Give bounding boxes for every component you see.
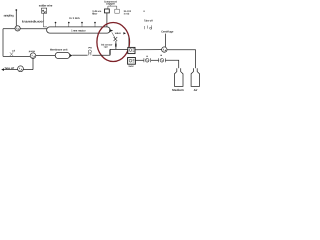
filter box 2: [115, 9, 120, 13]
signal generator box: [42, 8, 47, 13]
dip tube: [109, 49, 111, 55]
take off pump: [18, 66, 24, 72]
svg-text:1 mm reactor: 1 mm reactor: [71, 30, 85, 33]
reactor outlet arrow: [109, 29, 113, 32]
membrane outlet arrow: [70, 54, 73, 57]
svg-text:solder wire: solder wire: [39, 3, 53, 7]
injection port 1: [55, 22, 57, 27]
pump box B: [128, 58, 136, 65]
svg-text:Take off: Take off: [4, 67, 14, 70]
label leader line: [164, 34, 166, 47]
loop line into circle: [92, 54, 110, 56]
svg-text:NaOH: NaOH: [129, 65, 134, 68]
wire left vertical: [2, 29, 4, 57]
filter box 1: [105, 9, 110, 13]
transducer circle: [15, 26, 20, 31]
gas T split: [109, 4, 111, 7]
feed pump: [30, 53, 36, 59]
take off arrow: [1, 68, 4, 71]
bottom loop line: [3, 55, 30, 57]
bottle 2: [191, 68, 199, 86]
svg-text:filter: filter: [92, 13, 97, 16]
line box A to centrifugal pump: [135, 49, 162, 51]
tubular reactor capsule: [47, 27, 111, 33]
sampling port line: [15, 10, 17, 26]
svg-text:valve: valve: [115, 32, 122, 35]
membrane capsule: [55, 52, 70, 58]
svg-text:Membrane unit: Membrane unit: [50, 48, 68, 51]
inline valve PK: [88, 46, 92, 55]
inline clamp: [10, 49, 16, 56]
injection port 2: [68, 22, 70, 27]
svg-text:transducer: transducer: [22, 20, 45, 24]
wire from box to reactor: [43, 13, 47, 27]
probe stem: [115, 41, 117, 49]
probe collar: [115, 44, 117, 47]
svg-text:Take-off: Take-off: [144, 20, 153, 23]
line feed pump to membrane: [36, 55, 56, 57]
supply line down to reactor: [106, 13, 108, 27]
sampling port dot: [15, 9, 17, 11]
red highlight ellipse: [97, 23, 130, 62]
wire transducer to reactor: [20, 28, 47, 30]
centrifugal pump: [162, 47, 167, 52]
valve X: [114, 37, 118, 41]
line sensor to pump 2: [151, 59, 159, 61]
small clamp marks: [144, 25, 151, 29]
injection port 4: [94, 22, 96, 27]
pump box A: [128, 47, 135, 53]
wire left of transducer: [3, 28, 15, 30]
injection port 3: [81, 22, 83, 27]
svg-text:PK: PK: [88, 46, 92, 49]
feed pump down line: [32, 59, 34, 70]
svg-text:in 1 mm: in 1 mm: [69, 17, 80, 20]
svg-text:Medium: Medium: [172, 88, 184, 92]
pH sensor: [144, 56, 151, 63]
svg-text:spot: spot: [104, 46, 108, 49]
svg-text:Centrifuge: Centrifuge: [161, 31, 174, 34]
line box B to sensor: [135, 59, 143, 61]
line pump to bottle 2: [167, 50, 196, 69]
gas line down to pump box: [128, 36, 130, 47]
outlet line to pump box: [110, 48, 128, 50]
line pump 2 to bottle 1: [166, 60, 179, 68]
svg-text:sampling: sampling: [4, 13, 14, 17]
harvest pump: [159, 55, 166, 63]
line membrane to reactor loop: [72, 54, 87, 56]
bottle 1: [175, 68, 184, 86]
svg-text:in O2: in O2: [124, 12, 130, 15]
probe diagonal: [112, 32, 115, 37]
svg-text:oxygen: oxygen: [106, 3, 115, 6]
take off line: [2, 69, 33, 71]
gas out arrow mark: [123, 32, 126, 34]
